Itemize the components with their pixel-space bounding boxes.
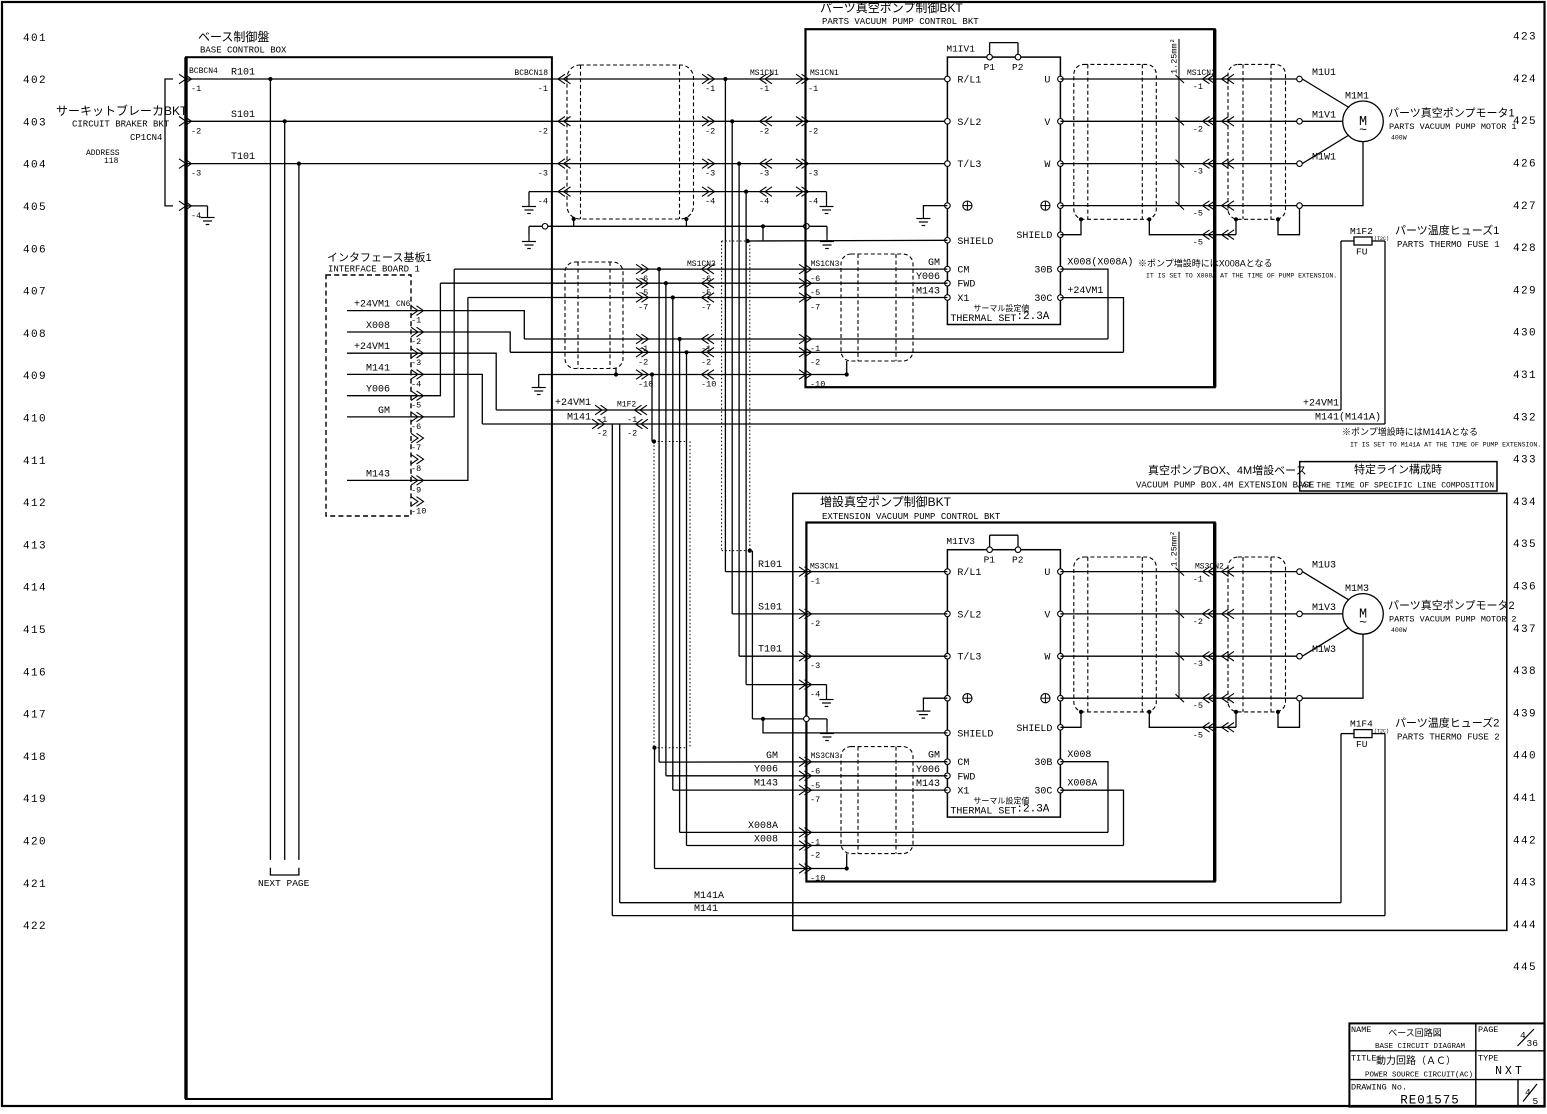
svg-text:-9: -9 xyxy=(411,485,421,495)
svg-text:-1: -1 xyxy=(597,415,607,425)
svg-text:FWD: FWD xyxy=(957,280,975,291)
svg-text:434: 434 xyxy=(1513,497,1537,509)
svg-text:PARTS THERMO FUSE 2: PARTS THERMO FUSE 2 xyxy=(1397,733,1500,743)
svg-text:445: 445 xyxy=(1513,962,1537,974)
svg-text:X008: X008 xyxy=(1067,750,1091,761)
svg-text:NXT: NXT xyxy=(1495,1065,1525,1078)
svg-text:THERMAL SET: THERMAL SET xyxy=(950,807,1016,818)
svg-text:407: 407 xyxy=(23,287,47,299)
svg-text:※ポンプ増設時にはX008Aとなる: ※ポンプ増設時にはX008Aとなる xyxy=(1138,258,1272,269)
svg-text:S/L2: S/L2 xyxy=(957,609,981,621)
svg-text:-4: -4 xyxy=(191,211,201,221)
svg-text:M141: M141 xyxy=(366,363,390,374)
svg-text:-2: -2 xyxy=(701,357,711,367)
svg-text:-4: -4 xyxy=(759,197,769,207)
svg-text:416: 416 xyxy=(23,667,47,679)
svg-text:401: 401 xyxy=(23,33,47,45)
svg-text:真空ポンプBOX、4M増設ベース: 真空ポンプBOX、4M増設ベース xyxy=(1148,463,1307,477)
svg-text:SHIELD: SHIELD xyxy=(1016,231,1052,242)
svg-text:SHIELD: SHIELD xyxy=(957,237,993,248)
svg-text:-1: -1 xyxy=(1193,575,1203,585)
svg-text:PARTS VACUUM PUMP CONTROL BKT: PARTS VACUUM PUMP CONTROL BKT xyxy=(822,17,979,27)
svg-text:409: 409 xyxy=(23,371,47,383)
svg-text:+24VM1: +24VM1 xyxy=(1067,286,1103,297)
svg-text:-5: -5 xyxy=(411,401,421,411)
svg-text:-7: -7 xyxy=(638,303,648,313)
svg-text:R/L1: R/L1 xyxy=(957,75,981,87)
svg-text:CN6: CN6 xyxy=(396,300,411,309)
svg-text:S101: S101 xyxy=(231,110,255,121)
svg-text:THERMAL SET: THERMAL SET xyxy=(950,314,1016,325)
svg-text:TYPE: TYPE xyxy=(1478,1054,1498,1064)
svg-text:-5: -5 xyxy=(1193,730,1203,740)
svg-text:-1: -1 xyxy=(1193,82,1203,92)
svg-text:V: V xyxy=(1044,610,1050,621)
svg-text:パーツ温度ヒューズ2: パーツ温度ヒューズ2 xyxy=(1395,716,1499,730)
svg-text:5: 5 xyxy=(1533,1096,1539,1107)
svg-text:433: 433 xyxy=(1513,455,1537,467)
svg-text:M1V3: M1V3 xyxy=(1312,603,1336,614)
svg-text:GM: GM xyxy=(766,751,778,762)
svg-text:T/L3: T/L3 xyxy=(957,159,981,171)
svg-text:M141: M141 xyxy=(567,413,591,424)
svg-text:439: 439 xyxy=(1513,708,1537,720)
svg-text:36: 36 xyxy=(1527,1038,1539,1049)
svg-text:-4: -4 xyxy=(705,197,715,207)
svg-text:U: U xyxy=(1044,76,1050,87)
svg-text:411: 411 xyxy=(23,456,47,468)
svg-text:-2: -2 xyxy=(638,357,648,367)
svg-text:パーツ温度ヒューズ1: パーツ温度ヒューズ1 xyxy=(1395,223,1499,237)
svg-text:118: 118 xyxy=(104,157,119,166)
svg-text:M1IV1: M1IV1 xyxy=(946,44,975,55)
svg-text:426: 426 xyxy=(1513,159,1537,171)
svg-text:NAME: NAME xyxy=(1351,1025,1371,1035)
svg-text:CM: CM xyxy=(957,266,969,277)
svg-text:動力回路（ＡＣ）: 動力回路（ＡＣ） xyxy=(1376,1054,1456,1067)
svg-text:+24VM1: +24VM1 xyxy=(354,300,390,311)
svg-text:AT THE TIME OF SPECIFIC LINE C: AT THE TIME OF SPECIFIC LINE COMPOSITION xyxy=(1302,482,1494,491)
svg-text:IT IS SET TO M141A AT THE TIME: IT IS SET TO M141A AT THE TIME OF PUMP E… xyxy=(1350,442,1541,449)
svg-text:415: 415 xyxy=(23,625,47,637)
svg-text:MS3CN1: MS3CN1 xyxy=(810,563,839,572)
svg-text:MS1CN1: MS1CN1 xyxy=(810,69,839,78)
svg-text:サーキットブレーカBKT: サーキットブレーカBKT xyxy=(56,103,188,118)
svg-text:+24VM1: +24VM1 xyxy=(555,398,591,409)
svg-text:X008A: X008A xyxy=(1067,779,1097,790)
svg-text:-7: -7 xyxy=(701,303,711,313)
svg-text:-10: -10 xyxy=(810,874,825,884)
svg-text:-2: -2 xyxy=(411,337,421,347)
svg-text:429: 429 xyxy=(1513,285,1537,297)
svg-text:GM: GM xyxy=(378,406,390,417)
svg-text::2.3A: :2.3A xyxy=(1016,311,1049,323)
svg-text:408: 408 xyxy=(23,329,47,341)
svg-text:435: 435 xyxy=(1513,539,1537,551)
svg-text:M141: M141 xyxy=(694,904,718,915)
svg-text:R101: R101 xyxy=(231,68,255,79)
svg-text:421: 421 xyxy=(23,879,47,891)
svg-text:BCBCN4: BCBCN4 xyxy=(189,67,218,76)
svg-text:M1U3: M1U3 xyxy=(1312,561,1336,572)
svg-text:417: 417 xyxy=(23,710,47,722)
svg-text:419: 419 xyxy=(23,794,47,806)
svg-text:-3: -3 xyxy=(538,169,548,179)
svg-text:-10: -10 xyxy=(411,507,426,517)
svg-text:-3: -3 xyxy=(1193,659,1203,669)
svg-text:444: 444 xyxy=(1513,920,1537,932)
svg-text:MS3CN3: MS3CN3 xyxy=(811,752,840,761)
svg-text:特定ライン構成時: 特定ライン構成時 xyxy=(1354,462,1442,476)
svg-text:DRAWING No.: DRAWING No. xyxy=(1351,1083,1407,1093)
svg-text:400W: 400W xyxy=(1391,627,1407,634)
svg-text:-7: -7 xyxy=(810,303,820,313)
svg-text:RE01575: RE01575 xyxy=(1400,1094,1460,1108)
svg-text:-2: -2 xyxy=(810,619,820,629)
svg-text:-1: -1 xyxy=(191,84,201,94)
svg-text:-5: -5 xyxy=(810,288,820,298)
svg-text:-1: -1 xyxy=(627,415,637,425)
svg-text:-2: -2 xyxy=(1193,617,1203,627)
svg-text:+24VM1: +24VM1 xyxy=(1303,399,1339,410)
svg-text:M141A: M141A xyxy=(694,891,724,902)
svg-text:-1: -1 xyxy=(810,577,820,587)
svg-text:POWER SOURCE CIRCUIT(AC): POWER SOURCE CIRCUIT(AC) xyxy=(1365,1072,1473,1080)
svg-text:404: 404 xyxy=(23,160,47,172)
svg-text:M1F2: M1F2 xyxy=(617,401,636,410)
svg-text:-10: -10 xyxy=(638,380,653,390)
svg-text::2.3A: :2.3A xyxy=(1016,804,1049,816)
svg-text:-8: -8 xyxy=(411,464,421,474)
svg-text:441: 441 xyxy=(1513,793,1537,805)
svg-text:M1F4: M1F4 xyxy=(1350,719,1373,730)
svg-text:-3: -3 xyxy=(411,358,421,368)
svg-text:-1: -1 xyxy=(808,84,818,94)
svg-text:-4: -4 xyxy=(411,379,421,389)
svg-text:X008(X008A): X008(X008A) xyxy=(1067,257,1133,269)
svg-text:P1: P1 xyxy=(984,62,996,73)
svg-text:X008: X008 xyxy=(754,835,778,846)
svg-text:BCBCN18: BCBCN18 xyxy=(514,69,548,78)
svg-text:-4: -4 xyxy=(538,197,548,207)
svg-text:-6: -6 xyxy=(411,422,421,432)
svg-text:MS1CN3: MS1CN3 xyxy=(687,260,716,269)
svg-text:-1: -1 xyxy=(411,316,421,326)
svg-text:-4: -4 xyxy=(810,690,820,700)
svg-text:パーツ真空ポンプ制御BKT: パーツ真空ポンプ制御BKT xyxy=(820,0,963,15)
svg-text:FU: FU xyxy=(1356,739,1368,750)
svg-text:443: 443 xyxy=(1513,878,1537,890)
svg-text:M143: M143 xyxy=(916,779,940,790)
svg-text:W: W xyxy=(1044,653,1050,664)
svg-text:M1U1: M1U1 xyxy=(1312,68,1336,79)
svg-text:P1: P1 xyxy=(984,555,996,566)
svg-text:413: 413 xyxy=(23,540,47,552)
svg-text:-2: -2 xyxy=(810,357,820,367)
svg-text:400W: 400W xyxy=(1391,135,1407,142)
svg-text:403: 403 xyxy=(23,117,47,129)
svg-text:R/L1: R/L1 xyxy=(957,567,981,579)
svg-text:IT IS SET TO X008A AT THE TIME: IT IS SET TO X008A AT THE TIME OF PUMP E… xyxy=(1146,273,1337,280)
svg-text:-2: -2 xyxy=(705,126,715,136)
svg-text:-5: -5 xyxy=(1193,238,1203,248)
svg-text:-1: -1 xyxy=(538,84,548,94)
svg-text:INTERFACE BOARD 1: INTERFACE BOARD 1 xyxy=(328,265,420,275)
svg-text:30C: 30C xyxy=(1034,787,1052,798)
svg-text:-2: -2 xyxy=(191,126,201,136)
svg-text:パーツ真空ポンプモータ1: パーツ真空ポンプモータ1 xyxy=(1388,106,1515,120)
svg-text:M1W3: M1W3 xyxy=(1312,645,1336,656)
svg-text:423: 423 xyxy=(1513,32,1537,44)
svg-text:+24VM1: +24VM1 xyxy=(354,342,390,353)
svg-text:436: 436 xyxy=(1513,582,1537,594)
svg-text:-3: -3 xyxy=(808,169,818,179)
svg-text:CIRCUIT BRAKER BKT: CIRCUIT BRAKER BKT xyxy=(72,120,170,130)
svg-text:431: 431 xyxy=(1513,370,1537,382)
svg-text:GM: GM xyxy=(928,258,940,269)
svg-text:PARTS THERMO FUSE 1: PARTS THERMO FUSE 1 xyxy=(1397,240,1500,250)
svg-text:425: 425 xyxy=(1513,116,1537,128)
svg-text:インタフェース基板1: インタフェース基板1 xyxy=(327,250,432,264)
svg-text:-2: -2 xyxy=(597,429,607,439)
svg-text:(T2C): (T2C) xyxy=(1374,729,1389,735)
svg-text:Y006: Y006 xyxy=(754,765,778,776)
svg-text:V: V xyxy=(1044,118,1050,129)
svg-text:T101: T101 xyxy=(231,152,255,163)
svg-text:M1M3: M1M3 xyxy=(1345,584,1369,595)
svg-text:414: 414 xyxy=(23,583,47,595)
svg-text:S101: S101 xyxy=(758,602,782,613)
svg-text:-3: -3 xyxy=(191,169,201,179)
svg-text:EXTENSION VACUUM PUMP CONTROL: EXTENSION VACUUM PUMP CONTROL BKT xyxy=(822,512,1001,522)
svg-text:PARTS VACUUM PUMP MOTOR 1: PARTS VACUUM PUMP MOTOR 1 xyxy=(1389,122,1517,132)
svg-text:P2: P2 xyxy=(1012,555,1024,566)
svg-text:-5: -5 xyxy=(810,781,820,791)
svg-text:FU: FU xyxy=(1356,247,1368,258)
svg-text:30B: 30B xyxy=(1034,266,1052,277)
svg-text:(T2C): (T2C) xyxy=(1374,236,1389,242)
svg-text:R101: R101 xyxy=(758,560,782,571)
svg-text:M143: M143 xyxy=(916,287,940,298)
svg-text:420: 420 xyxy=(23,837,47,849)
svg-text:-7: -7 xyxy=(411,443,421,453)
svg-text:438: 438 xyxy=(1513,666,1537,678)
svg-text:-3: -3 xyxy=(705,169,715,179)
svg-text:424: 424 xyxy=(1513,74,1537,86)
svg-text:422: 422 xyxy=(23,921,47,933)
svg-text:VACUUM PUMP BOX.4M EXTENSION B: VACUUM PUMP BOX.4M EXTENSION BASE xyxy=(1136,481,1314,491)
svg-text:ベース制御盤: ベース制御盤 xyxy=(198,29,269,44)
svg-text:405: 405 xyxy=(23,202,47,214)
svg-text:-7: -7 xyxy=(810,795,820,805)
svg-text:-3: -3 xyxy=(810,661,820,671)
svg-text:432: 432 xyxy=(1513,412,1537,424)
svg-text:M1IV3: M1IV3 xyxy=(946,536,975,547)
svg-text:402: 402 xyxy=(23,75,47,87)
svg-text:X1: X1 xyxy=(957,294,969,305)
svg-text:W: W xyxy=(1044,160,1050,171)
svg-text:-1: -1 xyxy=(705,84,715,94)
svg-text:M1W1: M1W1 xyxy=(1312,153,1336,164)
svg-text:-2: -2 xyxy=(627,429,637,439)
svg-text:BASE CIRCUIT DIAGRAM: BASE CIRCUIT DIAGRAM xyxy=(1375,1043,1466,1051)
svg-text:427: 427 xyxy=(1513,201,1537,213)
svg-text:CP1CN4: CP1CN4 xyxy=(130,133,162,143)
svg-text:パーツ真空ポンプモータ2: パーツ真空ポンプモータ2 xyxy=(1388,598,1515,612)
svg-text:SHIELD: SHIELD xyxy=(957,729,993,740)
svg-text:-2: -2 xyxy=(808,126,818,136)
svg-text:M1M1: M1M1 xyxy=(1345,92,1369,103)
svg-text:PARTS VACUUM PUMP MOTOR 2: PARTS VACUUM PUMP MOTOR 2 xyxy=(1389,615,1517,625)
svg-text:406: 406 xyxy=(23,244,47,256)
svg-text:4: 4 xyxy=(1520,1030,1526,1041)
svg-text:T/L3: T/L3 xyxy=(957,652,981,664)
svg-text:SHIELD: SHIELD xyxy=(1016,724,1052,735)
svg-text:-2: -2 xyxy=(1193,124,1203,134)
svg-text:※ポンプ増設時にはM141Aとなる: ※ポンプ増設時にはM141Aとなる xyxy=(1342,426,1478,437)
svg-text:BASE CONTROL BOX: BASE CONTROL BOX xyxy=(200,46,287,56)
svg-text:S/L2: S/L2 xyxy=(957,117,981,129)
svg-text:440: 440 xyxy=(1513,751,1537,763)
svg-text:M143: M143 xyxy=(754,779,778,790)
svg-text:NEXT PAGE: NEXT PAGE xyxy=(258,878,310,889)
svg-text:ベース回路図: ベース回路図 xyxy=(1388,1027,1442,1038)
svg-text:Y006: Y006 xyxy=(916,272,940,283)
svg-text:CM: CM xyxy=(957,758,969,769)
svg-text:X008: X008 xyxy=(366,321,390,332)
svg-text:418: 418 xyxy=(23,752,47,764)
svg-text:FWD: FWD xyxy=(957,772,975,783)
svg-text:430: 430 xyxy=(1513,328,1537,340)
svg-text:Y006: Y006 xyxy=(366,385,390,396)
svg-text:X1: X1 xyxy=(957,787,969,798)
svg-text:1.25mm²: 1.25mm² xyxy=(1170,531,1180,567)
svg-text:増設真空ポンプ制御BKT: 増設真空ポンプ制御BKT xyxy=(820,494,952,509)
svg-text:-1: -1 xyxy=(759,84,769,94)
svg-text:T101: T101 xyxy=(758,645,782,656)
svg-text:442: 442 xyxy=(1513,835,1537,847)
svg-text:M143: M143 xyxy=(366,469,390,480)
svg-text:30B: 30B xyxy=(1034,758,1052,769)
svg-text:-10: -10 xyxy=(701,380,716,390)
svg-text:-3: -3 xyxy=(759,169,769,179)
svg-text:MS1CN3: MS1CN3 xyxy=(811,260,840,269)
svg-text:-2: -2 xyxy=(810,851,820,861)
svg-text:30C: 30C xyxy=(1034,294,1052,305)
svg-text:-5: -5 xyxy=(1193,701,1203,711)
svg-text:MS1CN1: MS1CN1 xyxy=(750,69,779,78)
svg-text:428: 428 xyxy=(1513,243,1537,255)
svg-text:M1F2: M1F2 xyxy=(1350,226,1373,237)
svg-text:410: 410 xyxy=(23,414,47,426)
svg-text:M141(M141A): M141(M141A) xyxy=(1315,412,1381,424)
svg-text:~: ~ xyxy=(1359,122,1367,137)
svg-text:X008A: X008A xyxy=(748,821,778,832)
svg-text:-3: -3 xyxy=(1193,167,1203,177)
svg-text:~: ~ xyxy=(1359,615,1367,630)
svg-text:-2: -2 xyxy=(538,126,548,136)
svg-text:-5: -5 xyxy=(1193,209,1203,219)
svg-text:412: 412 xyxy=(23,498,47,510)
svg-text:437: 437 xyxy=(1513,624,1537,636)
svg-text:GM: GM xyxy=(928,751,940,762)
svg-text:Y006: Y006 xyxy=(916,765,940,776)
svg-text:TITLE: TITLE xyxy=(1351,1054,1377,1064)
svg-text:PAGE: PAGE xyxy=(1478,1025,1498,1035)
svg-text:-2: -2 xyxy=(759,126,769,136)
svg-text:M1V1: M1V1 xyxy=(1312,110,1336,121)
svg-text:U: U xyxy=(1044,568,1050,579)
svg-text:P2: P2 xyxy=(1012,62,1024,73)
svg-text:1.25mm²: 1.25mm² xyxy=(1170,38,1180,74)
svg-text:-4: -4 xyxy=(808,197,818,207)
